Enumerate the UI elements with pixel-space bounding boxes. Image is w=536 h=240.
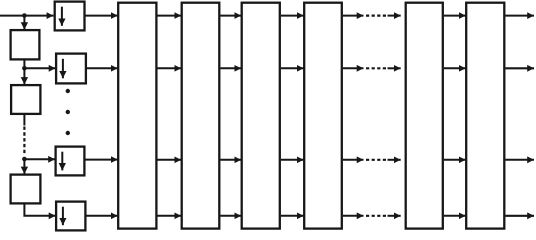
wire: P4 dashed continuation row3 xyxy=(343,159,401,161)
filter box H2 xyxy=(11,85,40,114)
wire: H1 output down xyxy=(23,61,25,69)
node: input junction xyxy=(22,13,27,18)
stage box P1 xyxy=(118,3,156,229)
wire: downsampler 3 to stage box P1 xyxy=(84,159,117,161)
wire: P4 dashed continuation row2 xyxy=(343,67,401,69)
down-arrow symbol in downsampler 1 xyxy=(61,7,63,26)
wire: P2 to P3 row3 xyxy=(221,159,242,161)
downsampler box 2 xyxy=(56,54,86,84)
down-arrow symbol in downsampler 2 xyxy=(62,59,64,79)
wire: input signal line x(n) xyxy=(0,15,53,17)
wire: output arrow row2 xyxy=(506,67,535,69)
wire: P3 to P4 row4 xyxy=(281,215,304,217)
wire: dashed continuation line xyxy=(23,127,25,156)
wire: P2 to P3 row1 xyxy=(221,15,242,17)
wire: P3 to P4 row2 xyxy=(281,67,304,69)
wire: output arrow row1 xyxy=(506,15,535,17)
wire: PK-1 to PK row4 xyxy=(444,215,466,217)
wire: output arrow row3 xyxy=(506,159,535,161)
stage box P3 xyxy=(242,3,280,229)
wire: downsampler 4 to stage box P1 xyxy=(85,215,117,217)
wire: P3 to P4 row1 xyxy=(281,15,304,17)
wire: P1 to P2 row4 xyxy=(158,215,182,217)
wire: P1 to P2 row3 xyxy=(158,159,182,161)
stage box P4 xyxy=(304,3,342,229)
down-arrow symbol in downsampler 3 xyxy=(61,152,63,171)
stage box PK xyxy=(466,3,504,229)
wire: junction down to filter H1 xyxy=(23,16,25,30)
node: junction above filter HM-1 xyxy=(22,157,27,162)
vertical ellipsis dots xyxy=(66,89,70,135)
wire: junction down to filter H2 xyxy=(23,68,25,84)
down-arrow symbol in downsampler 4 xyxy=(62,207,64,226)
wire: PK-1 to PK row2 xyxy=(444,67,466,69)
wire: junction to downsampler 2 xyxy=(24,67,55,69)
wire: PK-1 to PK row3 xyxy=(444,159,466,161)
filter box H1 xyxy=(11,30,40,59)
downsampler box 4 xyxy=(56,202,85,231)
node: junction below H1 xyxy=(22,66,27,71)
wire: junction to downsampler 3 xyxy=(24,158,55,160)
wire: junction down to filter HM-1 xyxy=(23,159,25,174)
wire: H2 output down (solid part) xyxy=(23,115,25,126)
wire: PK-1 to PK row1 xyxy=(444,15,466,17)
wire: P2 to P3 row2 xyxy=(221,67,242,69)
wire: P1 to P2 row2 xyxy=(158,67,182,69)
wire: output arrow row4 xyxy=(506,215,535,217)
wire: downsampler 2 to stage box P1 xyxy=(87,67,118,69)
wire: HM-1 output elbow to downsampler 4 xyxy=(24,204,55,216)
filter box HM-1 xyxy=(11,175,41,204)
wire: downsampler 1 to stage box P1 xyxy=(85,15,118,17)
wire: P1 to P2 row1 xyxy=(158,15,182,17)
stage box P2 xyxy=(182,3,220,229)
wire: P4 dashed continuation row1 xyxy=(343,15,401,17)
wire: P2 to P3 row4 xyxy=(221,215,242,217)
downsampler box 1 xyxy=(55,2,85,31)
wire: P3 to P4 row3 xyxy=(281,159,304,161)
wire: P4 dashed continuation row4 xyxy=(343,215,401,217)
stage box PK-1 xyxy=(406,3,443,229)
downsampler box 3 xyxy=(56,147,85,176)
